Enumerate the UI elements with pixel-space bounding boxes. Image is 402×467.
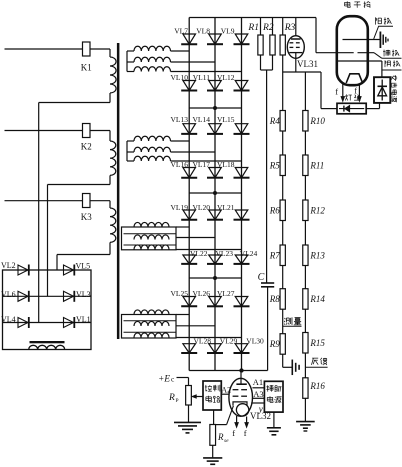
svg-text:f: f xyxy=(244,428,247,438)
svg-text:VL21: VL21 xyxy=(217,203,235,212)
svg-text:K3: K3 xyxy=(81,212,92,222)
svg-text:VL14: VL14 xyxy=(193,115,211,124)
svg-text:R3: R3 xyxy=(284,23,296,33)
svg-text:R: R xyxy=(168,393,175,403)
svg-text:VL12: VL12 xyxy=(217,73,235,82)
svg-text:R10: R10 xyxy=(309,116,325,126)
svg-text:VL19: VL19 xyxy=(171,203,189,212)
svg-text:R: R xyxy=(217,432,224,442)
svg-text:VL27: VL27 xyxy=(217,289,235,298)
svg-text:+: + xyxy=(159,374,164,384)
svg-text:f: f xyxy=(354,86,357,96)
svg-text:f: f xyxy=(232,428,235,438)
svg-text:VL15: VL15 xyxy=(217,115,235,124)
svg-text:VL20: VL20 xyxy=(193,203,211,212)
svg-text:R4: R4 xyxy=(269,116,280,126)
svg-text:VL10: VL10 xyxy=(171,73,189,82)
svg-text:VL4: VL4 xyxy=(1,315,16,324)
svg-text:R2: R2 xyxy=(262,23,274,33)
svg-text:VL25: VL25 xyxy=(171,289,189,298)
svg-text:VL3: VL3 xyxy=(76,290,91,299)
svg-text:R5: R5 xyxy=(269,161,280,171)
svg-text:R8: R8 xyxy=(269,294,280,304)
svg-text:VL16: VL16 xyxy=(171,160,189,169)
svg-text:R14: R14 xyxy=(309,294,325,304)
svg-text:R12: R12 xyxy=(309,206,325,216)
svg-text:VL1: VL1 xyxy=(76,315,91,324)
svg-text:VL22: VL22 xyxy=(190,249,208,258)
svg-text:R15: R15 xyxy=(309,338,325,348)
svg-text:C: C xyxy=(258,272,265,283)
svg-text:VL28: VL28 xyxy=(194,337,212,346)
svg-text:A2: A2 xyxy=(221,386,231,395)
svg-text:VL18: VL18 xyxy=(217,160,235,169)
svg-text:VL31: VL31 xyxy=(297,59,318,69)
svg-text:P: P xyxy=(176,398,179,404)
svg-text:f: f xyxy=(335,87,338,97)
svg-text:VL29: VL29 xyxy=(220,337,238,346)
svg-text:VL30: VL30 xyxy=(246,337,264,346)
svg-text:se: se xyxy=(224,438,229,444)
svg-text:A3: A3 xyxy=(253,389,263,399)
svg-text:R1: R1 xyxy=(247,23,259,33)
svg-text:VL2: VL2 xyxy=(1,261,16,270)
svg-text:VL11: VL11 xyxy=(193,73,210,82)
svg-text:E: E xyxy=(163,375,170,385)
svg-text:VL13: VL13 xyxy=(171,115,189,124)
svg-text:R16: R16 xyxy=(309,381,325,391)
svg-text:VL8: VL8 xyxy=(196,26,210,35)
svg-text:VL9: VL9 xyxy=(221,26,235,35)
svg-text:R6: R6 xyxy=(269,206,280,216)
svg-text:K2: K2 xyxy=(81,142,92,152)
svg-text:VL26: VL26 xyxy=(193,289,211,298)
svg-text:VL24: VL24 xyxy=(240,249,258,258)
svg-text:VL23: VL23 xyxy=(216,249,234,258)
svg-text:VL7: VL7 xyxy=(174,26,188,35)
svg-text:A1: A1 xyxy=(253,377,263,387)
svg-text:R11: R11 xyxy=(309,161,324,171)
svg-text:R13: R13 xyxy=(309,251,325,261)
svg-text:R7: R7 xyxy=(269,251,280,261)
svg-text:K1: K1 xyxy=(81,63,92,73)
svg-text:VL6: VL6 xyxy=(1,290,16,299)
svg-text:R9: R9 xyxy=(269,339,280,349)
svg-text:VL5: VL5 xyxy=(76,262,91,271)
svg-text:VL17: VL17 xyxy=(193,160,211,169)
